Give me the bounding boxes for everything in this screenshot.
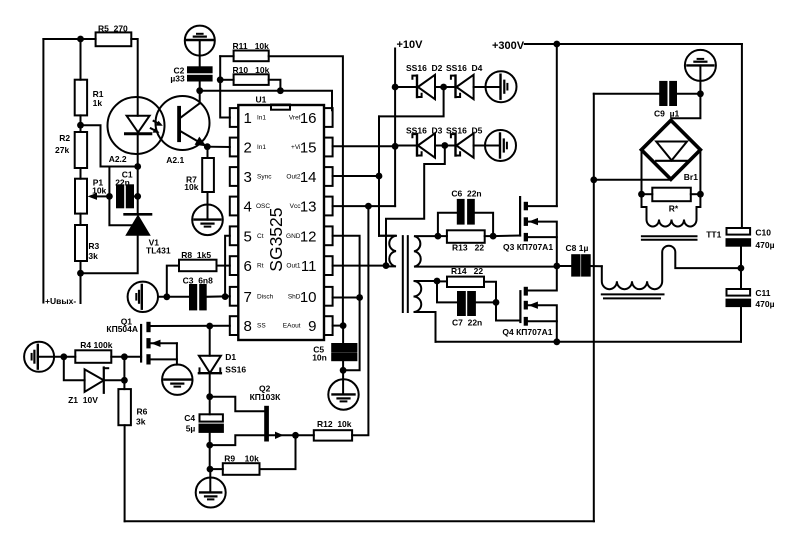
node wiper-C1 junction bbox=[106, 193, 113, 200]
light arrow 2 bbox=[151, 128, 157, 131]
ground circle D4 bbox=[486, 71, 517, 102]
node Z1-R6 junction bbox=[121, 377, 128, 384]
node half-bridge midpoint bbox=[553, 263, 560, 270]
node R* left junction bbox=[638, 191, 645, 198]
wire +300V to Q3 drain bbox=[556, 44, 558, 206]
node C3 left junction bbox=[163, 293, 170, 300]
node Out2 junction bbox=[376, 173, 383, 180]
node Out1 junction bbox=[383, 262, 390, 269]
node R4 left junction bbox=[60, 353, 67, 360]
svg-text:R9 10k: R9 10k bbox=[224, 454, 259, 464]
capacitor C10 bbox=[727, 228, 751, 235]
wire R2-P1 bbox=[80, 168, 82, 179]
svg-text:R6: R6 bbox=[137, 406, 148, 416]
node +10V D3 junction bbox=[392, 143, 399, 150]
svg-text:R11 10k: R11 10k bbox=[233, 41, 270, 51]
wire output stub bbox=[80, 273, 82, 303]
resistor R12 bbox=[296, 434, 314, 436]
wire bridge bottom corner to minus rail bbox=[594, 179, 671, 181]
capacitor C7 bbox=[437, 281, 458, 302]
svg-text:R10 10k: R10 10k bbox=[233, 65, 270, 75]
transformer TT1 core bbox=[642, 235, 697, 237]
svg-text:U1: U1 bbox=[256, 95, 267, 105]
wire pin11 Out1 bbox=[333, 265, 386, 267]
ground circle below R7 bbox=[192, 205, 223, 236]
ground circle below R9 bbox=[209, 469, 211, 492]
svg-text:R5 270: R5 270 bbox=[98, 24, 128, 34]
svg-text:Vcc: Vcc bbox=[290, 203, 302, 210]
wire D3-D5 node to Out1 node bbox=[386, 146, 445, 266]
resistor R8 bbox=[167, 266, 179, 297]
wire C5 bottom bbox=[342, 360, 344, 394]
svg-text:КП103К: КП103К bbox=[250, 392, 281, 402]
svg-text:SS16: SS16 bbox=[225, 365, 246, 375]
wire R6 bottom to rail bbox=[124, 425, 126, 521]
svg-text:A2.1: A2.1 bbox=[166, 155, 184, 165]
wire C3 right to pin7 bbox=[206, 295, 230, 298]
svg-text:TL431: TL431 bbox=[146, 245, 171, 255]
svg-text:SS16 D5: SS16 D5 bbox=[446, 126, 483, 136]
node R4 right junction bbox=[121, 353, 128, 360]
diode D4 SS16 bbox=[435, 86, 455, 88]
transistor Q3 KP707A1 bbox=[519, 197, 521, 235]
svg-text:10: 10 bbox=[300, 289, 317, 306]
wire R4 node down to R6 bbox=[123, 357, 125, 389]
svg-text:3k: 3k bbox=[88, 251, 98, 261]
node Vref wire junction bbox=[277, 87, 284, 94]
resistor R14 bbox=[437, 280, 447, 282]
svg-text:22n: 22n bbox=[115, 178, 130, 188]
wire R12 right up to Vcc line bbox=[352, 206, 368, 435]
wire P1-R3 bbox=[80, 214, 82, 225]
capacitor C6 bbox=[438, 213, 458, 236]
wire bridge right corner to R* bbox=[699, 150, 701, 194]
wire R3 bottom bbox=[80, 261, 82, 273]
node upper secondary top junction bbox=[435, 233, 442, 240]
capacitor C1 bbox=[117, 185, 123, 207]
wire D5 to ground circle bbox=[474, 145, 500, 147]
wire bridge left corner down bbox=[641, 150, 643, 194]
svg-text:Sync: Sync bbox=[257, 174, 272, 181]
node lower secondary top junction bbox=[434, 278, 441, 285]
svg-text:Q4 КП707А1: Q4 КП707А1 bbox=[502, 327, 552, 337]
svg-text:10k: 10k bbox=[92, 185, 106, 195]
node D3-D5 junction bbox=[441, 142, 448, 149]
svg-text:12: 12 bbox=[300, 228, 317, 245]
node D1 top junction bbox=[206, 323, 213, 330]
capacitor C4 bbox=[200, 414, 223, 421]
resistor R13 bbox=[438, 235, 447, 237]
wire ground to C2 bbox=[199, 40, 201, 67]
wire C2 bottom bbox=[199, 81, 201, 91]
node D2-D4 junction bbox=[440, 84, 447, 91]
wire emitter to pin2 bbox=[207, 146, 230, 148]
wire C4 bottom bbox=[209, 432, 211, 445]
svg-text:SS16 D2: SS16 D2 bbox=[406, 63, 443, 73]
node C2-collector junction bbox=[196, 87, 203, 94]
node pin9 junction bbox=[340, 322, 347, 329]
svg-text:КП504А: КП504А bbox=[106, 324, 138, 334]
resistor R* bbox=[642, 193, 653, 195]
wire gate feed Q3 bbox=[493, 235, 520, 238]
wire C11 bottom to rail bbox=[740, 306, 742, 342]
wire pin13 to +10V rail bbox=[333, 205, 396, 207]
svg-text:Br1: Br1 bbox=[684, 172, 698, 182]
zener Z1 bbox=[85, 369, 104, 392]
wire Out2 branch up to D2-D4 bbox=[378, 116, 380, 235]
svg-text:C10: C10 bbox=[755, 227, 771, 237]
wire ground to R4 bbox=[38, 356, 76, 358]
svg-text:10k: 10k bbox=[184, 182, 198, 192]
svg-text:1k: 1k bbox=[93, 98, 103, 108]
svg-text:14: 14 bbox=[300, 169, 317, 186]
resistor R6 bbox=[118, 389, 130, 425]
svg-text:Vref: Vref bbox=[289, 115, 301, 122]
svg-text:R*: R* bbox=[669, 204, 679, 214]
shunt V1 TL431 bbox=[125, 213, 151, 216]
svg-text:Out1: Out1 bbox=[286, 263, 300, 270]
light arrow 1 bbox=[154, 121, 160, 124]
transformer TT1 secondary core bbox=[602, 293, 664, 295]
transformer TT1 primary winding bbox=[642, 194, 701, 226]
ground circle top right bbox=[685, 50, 716, 81]
wire pin5 to Ct node bbox=[225, 236, 230, 297]
wire D4 to ground circle bbox=[474, 86, 501, 88]
svg-text:+Vi: +Vi bbox=[291, 144, 300, 151]
resistor R2 bbox=[75, 132, 87, 168]
capacitor C9 bbox=[594, 93, 659, 95]
ground circle output left bbox=[24, 342, 54, 372]
svg-text:5µ: 5µ bbox=[186, 423, 196, 433]
svg-text:R8 1k5: R8 1k5 bbox=[181, 250, 211, 260]
transformer driver core bbox=[402, 236, 404, 312]
wire C3 left bbox=[158, 296, 190, 298]
svg-text:+300V: +300V bbox=[492, 40, 525, 52]
node +10V D2 junction bbox=[392, 84, 399, 91]
wire pin9 to C5 bbox=[333, 325, 344, 327]
wire C4 to R9 bbox=[209, 445, 211, 469]
svg-text:27k: 27k bbox=[55, 145, 69, 155]
svg-text:R4 100k: R4 100k bbox=[80, 340, 112, 350]
transistor Q4 KP707A1 bbox=[519, 291, 521, 322]
wire pin15 to +10V rail bbox=[333, 145, 396, 147]
svg-text:In1: In1 bbox=[257, 144, 266, 151]
node +300V Q3 junction bbox=[553, 41, 560, 48]
node R3 bottom junction bbox=[77, 270, 84, 277]
wire R10 R11 left vertical to pin1 bbox=[220, 56, 230, 117]
resistor R3 bbox=[75, 225, 87, 261]
svg-text:R2: R2 bbox=[59, 133, 70, 143]
ground circle above C2 bbox=[185, 26, 215, 56]
svg-text:Z1 10V: Z1 10V bbox=[68, 395, 98, 405]
potentiometer P1 bbox=[75, 179, 87, 214]
phototransistor A2.1 bbox=[156, 96, 210, 150]
resistor R9 bbox=[210, 468, 223, 470]
wire R11 right to pin9 rail bbox=[269, 56, 343, 325]
wire R1-R2 bbox=[80, 115, 82, 132]
node R9 left junction bbox=[207, 466, 214, 473]
diode D1 SS16 bbox=[209, 326, 211, 356]
svg-text:C3: C3 bbox=[183, 275, 194, 285]
IC pin numbers and names bbox=[244, 110, 317, 335]
wire R8 right to pin6 bbox=[217, 265, 230, 267]
svg-text:C11: C11 bbox=[755, 288, 770, 298]
wire R1 top bbox=[80, 39, 82, 80]
svg-text:11: 11 bbox=[301, 258, 317, 275]
wire Z1 right bbox=[104, 379, 125, 381]
node minus rail top junction bbox=[590, 176, 597, 183]
node C5 bottom junction bbox=[340, 367, 347, 374]
svg-text:C6 22n: C6 22n bbox=[451, 189, 481, 199]
svg-text:Q3 КП707А1: Q3 КП707А1 bbox=[503, 242, 553, 252]
wire top left to R5 bbox=[43, 38, 95, 40]
resistor R7 bbox=[207, 147, 209, 158]
resistor R10 bbox=[220, 79, 233, 81]
node Q4 source junction bbox=[553, 338, 560, 345]
node Q2 gate junction bbox=[292, 432, 299, 439]
wire Out2 to primary top bbox=[379, 235, 396, 237]
svg-text:C7 22n: C7 22n bbox=[452, 317, 482, 327]
svg-text:Out2: Out2 bbox=[286, 174, 300, 181]
svg-text:In1: In1 bbox=[257, 115, 266, 122]
node R1-R2 junction bbox=[77, 122, 84, 129]
diode D2 SS16 bbox=[395, 86, 416, 88]
node C10-C11 midpoint bbox=[738, 265, 745, 272]
svg-text:470µ: 470µ bbox=[755, 299, 774, 309]
svg-text:R13 22: R13 22 bbox=[452, 243, 484, 253]
ground circle below C5 bbox=[328, 379, 358, 409]
wire R5 to LED anode bbox=[131, 39, 137, 116]
wire R4 right to gate bbox=[111, 356, 141, 358]
wire wiper riser bbox=[108, 167, 110, 197]
wire C1 right bbox=[133, 195, 138, 197]
svg-text:+10V: +10V bbox=[397, 39, 424, 51]
svg-text:ShD: ShD bbox=[288, 293, 301, 300]
node R5 left junction bbox=[77, 36, 84, 43]
node R* right junction bbox=[697, 191, 704, 198]
svg-text:C9 µ1: C9 µ1 bbox=[654, 109, 679, 119]
svg-text:16: 16 bbox=[300, 110, 317, 127]
node R10 left junction bbox=[217, 76, 224, 83]
ground circle D5 bbox=[485, 130, 516, 161]
diode D5 SS16 bbox=[435, 145, 455, 147]
svg-text:GND: GND bbox=[286, 233, 301, 240]
svg-text:TT1: TT1 bbox=[706, 230, 721, 240]
svg-text:C8 1µ: C8 1µ bbox=[566, 243, 589, 253]
transformer driver primary bbox=[379, 236, 396, 267]
svg-text:4: 4 bbox=[244, 199, 252, 216]
svg-text:R14 22: R14 22 bbox=[451, 266, 483, 276]
resistor R4 bbox=[75, 350, 111, 363]
transformer driver secondary upper bbox=[414, 236, 557, 267]
node C4 top junction bbox=[206, 393, 213, 400]
transistor Q1 KP504A bbox=[140, 325, 142, 362]
node Q3 gate junction bbox=[490, 233, 497, 240]
capacitor C3 bbox=[190, 285, 196, 309]
wire ground stem to C9 node bbox=[699, 65, 701, 93]
wire P1 wiper bbox=[96, 195, 109, 197]
svg-text:+Uвых-: +Uвых- bbox=[45, 296, 76, 306]
svg-text:Ct: Ct bbox=[257, 233, 264, 240]
wire source rail bbox=[436, 341, 742, 343]
wire bottom to V1 anode bbox=[81, 235, 138, 274]
svg-text:Disch: Disch bbox=[257, 293, 274, 300]
svg-text:D1: D1 bbox=[225, 352, 236, 362]
ground circle left of C3 bbox=[128, 282, 158, 312]
svg-text:R3: R3 bbox=[88, 241, 99, 251]
opto-LED A2.2 bbox=[108, 97, 165, 154]
wire bottom rail bbox=[125, 520, 594, 522]
svg-text:SS16 D3: SS16 D3 bbox=[406, 126, 443, 136]
resistor R5 bbox=[96, 32, 132, 46]
wire GND-ShD vertical bbox=[333, 236, 360, 370]
wire C10 bottom bbox=[740, 246, 742, 289]
transformer TT1 secondary winding bbox=[602, 246, 741, 290]
wire feedback tap to LED cathode node bbox=[81, 125, 138, 166]
capacitor C8 bbox=[557, 265, 572, 267]
svg-text:9: 9 bbox=[308, 318, 316, 335]
IC U1 SG3525 body bbox=[238, 105, 324, 340]
wire +300V down to C10 bbox=[741, 44, 743, 228]
svg-text:A2.2: A2.2 bbox=[109, 154, 127, 164]
svg-text:3: 3 bbox=[244, 169, 252, 186]
svg-text:SS: SS bbox=[257, 323, 266, 330]
wire R7 bottom bbox=[207, 192, 209, 220]
node C4 bottom junction bbox=[206, 442, 213, 449]
wire TL431 ref bbox=[109, 196, 133, 225]
svg-text:C4: C4 bbox=[184, 413, 195, 423]
capacitor C11 bbox=[727, 289, 751, 296]
node C9 right junction bbox=[697, 90, 704, 97]
capacitor C5 bbox=[342, 326, 344, 344]
wire minus rail vertical bbox=[593, 94, 595, 522]
diode D3 SS16 bbox=[395, 145, 416, 147]
svg-text:3k: 3k bbox=[136, 417, 146, 427]
svg-text:µ33: µ33 bbox=[170, 74, 185, 84]
node Vcc-R12 junction bbox=[365, 203, 372, 210]
svg-text:10n: 10n bbox=[312, 352, 327, 362]
wire pin8 SS line bbox=[151, 325, 230, 327]
svg-text:470µ: 470µ bbox=[755, 240, 774, 250]
svg-text:8: 8 bbox=[244, 318, 252, 335]
svg-text:SS16 D4: SS16 D4 bbox=[446, 63, 483, 73]
wire Z1 branch bbox=[64, 357, 85, 381]
svg-text:R12 10k: R12 10k bbox=[317, 419, 352, 429]
capacitor C2 bbox=[188, 67, 212, 72]
svg-text:13: 13 bbox=[300, 199, 317, 216]
resistor R11 bbox=[220, 55, 233, 57]
svg-text:15: 15 bbox=[300, 140, 317, 157]
svg-text:7: 7 bbox=[244, 289, 252, 306]
transistor Q2 KP103K bbox=[210, 397, 265, 412]
svg-text:2: 2 bbox=[244, 140, 252, 157]
wire R9 right up to gate node bbox=[260, 435, 296, 469]
svg-text:SG3525: SG3525 bbox=[266, 207, 286, 271]
transformer driver secondary lower bbox=[414, 281, 438, 342]
node LED cathode junction bbox=[134, 163, 141, 170]
wire pin14 Out2 bbox=[333, 175, 379, 177]
wire R10 right to Vref node bbox=[269, 80, 281, 91]
wire D1 bottom bbox=[209, 373, 211, 414]
svg-text:EAout: EAout bbox=[283, 323, 301, 330]
wire bridge top corner link bbox=[672, 94, 700, 119]
node C1 right junction bbox=[134, 193, 141, 200]
node Q4 gate junction bbox=[493, 299, 500, 306]
wire gate feed Q4 bbox=[496, 302, 520, 320]
svg-text:6: 6 bbox=[244, 258, 252, 275]
bridge Br1 bbox=[641, 120, 700, 179]
node Ct-Disch junction bbox=[222, 293, 229, 300]
IC pin stubs left bbox=[230, 108, 239, 127]
svg-text:Rt: Rt bbox=[257, 263, 264, 270]
svg-text:6n8: 6n8 bbox=[198, 275, 213, 285]
svg-text:5: 5 bbox=[244, 228, 252, 245]
node emitter junction bbox=[204, 143, 211, 150]
wire pin10 ShD bbox=[333, 297, 360, 299]
node ShD junction bbox=[356, 294, 363, 301]
resistor R1 bbox=[75, 80, 87, 116]
wire LED cathode bbox=[137, 135, 139, 213]
svg-text:1: 1 bbox=[244, 110, 252, 127]
wire left rail bbox=[42, 39, 44, 303]
ground circle below Q1 bbox=[162, 365, 192, 395]
IC pin stubs right bbox=[324, 108, 333, 127]
wire Vref line to pin16 bbox=[200, 91, 332, 111]
